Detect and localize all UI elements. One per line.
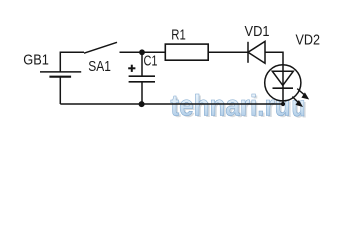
svg-text:VD1: VD1 (245, 23, 270, 40)
svg-text:R1: R1 (171, 27, 186, 44)
svg-text:tehnari.ru: tehnari.ru (171, 90, 291, 123)
svg-text:GB1: GB1 (23, 51, 49, 68)
svg-text:C1: C1 (144, 53, 158, 70)
svg-text:SA1: SA1 (88, 58, 111, 75)
svg-text:VD2: VD2 (296, 32, 321, 49)
